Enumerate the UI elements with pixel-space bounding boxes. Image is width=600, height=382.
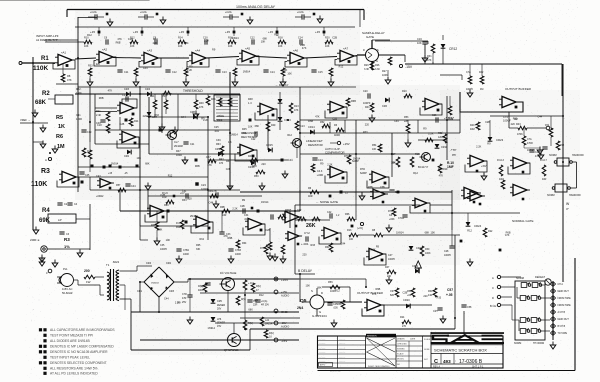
svg-text:CR?: CR?: [433, 310, 438, 313]
svg-text:1%: 1%: [64, 244, 70, 249]
svg-text:+0R22: +0R22: [96, 195, 104, 198]
svg-text:6AMP: 6AMP: [360, 172, 367, 175]
svg-text:APPD: APPD: [320, 364, 326, 367]
title block col2: [365, 336, 367, 368]
op-amp B3: [510, 157, 530, 173]
svg-text:C16: C16: [417, 37, 422, 41]
svg-text:+.001: +.001: [301, 242, 309, 246]
svg-text:MAIN OUT: MAIN OUT: [558, 290, 570, 293]
scattered value labels: [87, 33, 542, 329]
svg-text:BC117 P: BC117 P: [418, 165, 428, 169]
svg-text:R6D5: R6D5: [285, 209, 292, 212]
svg-text:R45: R45: [242, 128, 247, 131]
wire c8 out: [358, 234, 460, 236]
resistor row1v 0: [88, 68, 92, 80]
capacitor top Cc7: [250, 37, 255, 45]
note 7: [39, 361, 107, 365]
note 9: [43, 372, 98, 376]
title block col5 text: [424, 338, 431, 361]
wire q3 down: [171, 140, 173, 151]
svg-text:C45: C45: [85, 174, 90, 177]
resistor wr1: [218, 98, 232, 106]
transistor Q1 sample gate: [357, 40, 390, 70]
svg-text:2N4: 2N4: [297, 306, 303, 310]
ground row1v 5: [328, 79, 334, 87]
op-amp A4: [187, 49, 209, 68]
label R4 69K: [39, 208, 51, 224]
svg-text:100R: 100R: [76, 118, 82, 121]
wire ng right bus: [430, 212, 520, 214]
ground mesh a: [172, 127, 178, 135]
wire fet to opamp: [324, 287, 362, 302]
svg-text:CR9: CR9: [215, 148, 221, 151]
op-amp A3: [139, 49, 161, 68]
label mesh l0: [76, 88, 82, 121]
wire h154b: [149, 153, 240, 155]
wire c7 fb: [410, 203, 430, 213]
resistor net fr0: [470, 122, 480, 131]
diode CR23: [488, 120, 504, 142]
diode col d1: [278, 92, 283, 103]
svg-text:C18: C18: [97, 124, 102, 127]
wire bus y42a: [45, 41, 84, 43]
svg-text:R(U): R(U): [256, 285, 261, 288]
ground lj2: [52, 260, 58, 268]
svg-text:470K: 470K: [517, 133, 523, 136]
wire h160b: [208, 159, 288, 161]
label precision: [241, 131, 258, 139]
ground row1v 0: [87, 79, 93, 87]
svg-text:C41: C41: [76, 114, 81, 117]
svg-text:22R: 22R: [253, 304, 258, 307]
svg-text:+00R: +00R: [317, 174, 323, 177]
title block botleft box: [319, 363, 333, 367]
ground t40: [193, 111, 199, 119]
svg-text:47K: 47K: [372, 293, 377, 296]
capacitor top Cc9: [298, 37, 303, 45]
wire right stub y75: [440, 75, 462, 80]
plug AC: [57, 267, 74, 287]
capacitor f6: [81, 130, 92, 134]
wire b2 fb: [465, 161, 487, 172]
ground c5g: [272, 254, 278, 262]
capacitor mid row1 4: [311, 70, 323, 74]
label a17: [360, 168, 367, 175]
svg-text:A CH B: A CH B: [558, 311, 566, 314]
capacitor mesh g: [97, 120, 106, 127]
diode CR18: [409, 246, 424, 250]
svg-text:R12: R12: [335, 289, 340, 292]
svg-text:68K: 68K: [317, 286, 322, 289]
wire v120-133: [355, 120, 357, 141]
box c23: [195, 182, 208, 191]
svg-text:RESISTOR: RESISTOR: [308, 143, 323, 147]
svg-text:FROM TAPE: FROM TAPE: [558, 304, 572, 307]
terminal c tr: [527, 126, 553, 131]
resistor ps extra: [236, 296, 246, 305]
wire v360 top: [359, 10, 361, 28]
ground x3: [359, 193, 365, 201]
svg-text:R26: R26: [375, 64, 380, 67]
label mesh d: [214, 126, 247, 135]
op-amp B5: [510, 184, 530, 200]
svg-text:R48: R48: [248, 98, 253, 101]
svg-text:CR4: CR4: [145, 88, 151, 91]
svg-text:220: 220: [511, 123, 516, 126]
svg-text:R57: R57: [116, 184, 121, 187]
svg-text:+15: +15: [225, 30, 230, 34]
capacitor c14: [312, 158, 323, 162]
svg-text:2.2K: 2.2K: [232, 207, 237, 210]
svg-text:+C2A: +C2A: [297, 10, 304, 14]
svg-text:C20: C20: [363, 90, 368, 93]
svg-text:68K: 68K: [145, 162, 150, 165]
capacitor top C3: [223, 10, 243, 20]
svg-text:C12: C12: [172, 71, 177, 74]
wire h318 bm: [240, 317, 300, 319]
resistor k5: [372, 229, 383, 237]
svg-text:DEFEAT: DEFEAT: [535, 275, 545, 279]
label c9: [388, 254, 396, 261]
power +15 t1: [133, 27, 143, 36]
label mesh l1: [96, 110, 101, 125]
svg-text:C14: C14: [298, 37, 303, 40]
svg-text:40R: 40R: [542, 178, 547, 181]
label panel bottom: [514, 342, 544, 345]
wire h279 link: [366, 278, 563, 280]
wire h130 ext: [162, 129, 230, 131]
resistor mesh f: [248, 155, 258, 162]
svg-text:HANDOFF: HANDOFF: [569, 194, 582, 197]
svg-text:C7A: C7A: [527, 138, 532, 141]
wire v90b: [89, 87, 91, 142]
svg-text:CR2: CR2: [166, 262, 172, 265]
capacitor mid row1 2: [215, 70, 227, 74]
op-amp A10: [119, 131, 139, 144]
svg-text:100R: 100R: [183, 253, 189, 256]
capacitor c2c2: [240, 205, 253, 214]
ground tr2: [524, 145, 543, 154]
svg-text:10K: 10K: [287, 73, 292, 76]
svg-text:C11: C11: [124, 71, 129, 74]
wire v290 b: [289, 211, 291, 228]
diode CR2b: [124, 150, 131, 158]
svg-text:40M: 40M: [470, 128, 475, 131]
svg-text:R52: R52: [320, 121, 325, 124]
svg-text:200: 200: [84, 269, 90, 273]
capacitor cx: [389, 190, 400, 194]
wire v392: [391, 133, 393, 177]
svg-text:R6B: R6B: [375, 288, 380, 291]
svg-text:CHECKED: CHECKED: [397, 344, 407, 346]
wire v356: [355, 141, 357, 200]
svg-text:1.4: 1.4: [248, 102, 252, 105]
wire 26k bus: [295, 219, 330, 221]
svg-text:1N914: 1N914: [261, 201, 269, 204]
svg-text:R62: R62: [151, 224, 156, 227]
svg-text:+.01: +.01: [248, 282, 253, 285]
resistor wr3: [219, 146, 224, 165]
resistor r44 tr: [522, 128, 533, 145]
svg-text:220: 220: [153, 42, 158, 45]
svg-text:C7B: C7B: [212, 190, 217, 193]
ground g4: [154, 238, 160, 246]
svg-text:1R25R: 1R25R: [265, 323, 273, 326]
svg-text:C2B: C2B: [332, 118, 337, 121]
label win: [566, 202, 570, 211]
label R7 1pct: [64, 237, 70, 249]
svg-text:C44: C44: [143, 67, 148, 70]
wire bm top rail: [262, 279, 366, 287]
wire bus y192: [240, 191, 360, 193]
wire c8 fb: [319, 233, 341, 244]
svg-text:VREF →: VREF →: [20, 118, 31, 122]
resistor r47: [385, 266, 396, 278]
svg-text:CR12: CR12: [449, 47, 457, 51]
svg-text:A: A: [45, 158, 47, 162]
title block col1: [337, 336, 339, 368]
svg-text:1N914: 1N914: [243, 70, 251, 73]
panel input D: [492, 295, 512, 300]
svg-text:220: 220: [261, 163, 266, 166]
capacitor cl2: [125, 184, 136, 188]
svg-text:R22: R22: [488, 230, 493, 233]
resistor r24: [400, 316, 411, 328]
capacitor ps c1: [255, 300, 269, 307]
svg-text:GATE: GATE: [366, 35, 374, 39]
svg-text:MODEL: MODEL: [397, 359, 405, 361]
svg-text:SCALE: SCALE: [397, 353, 404, 356]
svg-text:R12: R12: [274, 33, 279, 36]
power +15 t3: [225, 27, 235, 36]
capacitor c tap: [212, 190, 219, 208]
svg-text:.001: .001: [214, 130, 219, 133]
switch norm low2: [547, 184, 582, 197]
svg-text:C31: C31: [182, 190, 187, 193]
svg-text:R33: R33: [154, 114, 159, 117]
svg-text:R12: R12: [339, 65, 344, 68]
svg-text:CR8: CR8: [190, 111, 195, 114]
svg-text:1W: 1W: [86, 280, 91, 284]
wire c2 fb: [191, 222, 213, 233]
svg-text:G·MPF104: G·MPF104: [312, 314, 327, 318]
label 24MF: [30, 238, 40, 242]
svg-text:R58: R58: [337, 303, 342, 306]
logo SAE: [431, 332, 505, 344]
capacitor top C2: [138, 10, 158, 20]
svg-text:CR24: CR24: [474, 224, 482, 228]
label linear fet: [306, 139, 323, 147]
resistor ngr: [483, 228, 493, 237]
svg-text:26K: 26K: [306, 223, 316, 229]
svg-text:+15: +15: [268, 30, 273, 34]
svg-text:100UF: 100UF: [503, 119, 511, 123]
wire v268: [267, 115, 269, 150]
svg-text:C44: C44: [537, 115, 542, 118]
svg-text:47R: 47R: [182, 297, 187, 300]
svg-text:100PF: 100PF: [388, 258, 396, 261]
resistor c5r: [280, 245, 286, 263]
terminal misc3: [499, 249, 502, 252]
svg-text:×A7: ×A7: [343, 47, 348, 51]
note 8: [43, 367, 97, 371]
resistor pair topright: [466, 64, 484, 91]
label f12: [404, 116, 409, 123]
wire v452: [451, 190, 453, 230]
label c1: [162, 192, 175, 199]
svg-text:R.U: R.U: [176, 222, 180, 225]
svg-text:R52: R52: [438, 132, 443, 135]
connector J3: [551, 296, 572, 301]
diode CR6: [382, 98, 389, 108]
svg-text:-15V: -15V: [405, 65, 413, 69]
svg-text:C19: C19: [162, 95, 167, 98]
wire rail mid3: [215, 322, 299, 324]
svg-text:C26: C26: [432, 114, 437, 117]
connector J7: [551, 324, 566, 329]
label b delay: [298, 269, 313, 273]
resistor ng3: [420, 246, 431, 256]
svg-text:R2: R2: [42, 91, 50, 97]
ground k6: [386, 225, 392, 233]
svg-text:C2B: C2B: [332, 36, 337, 39]
svg-text:—— —: —— —: [339, 343, 345, 345]
svg-text:4R 20V: 4R 20V: [261, 304, 269, 307]
label R6 1M: [56, 134, 65, 150]
note 1: [39, 328, 116, 332]
ground bm2: [440, 316, 446, 324]
terminal +15 mid: [330, 141, 350, 146]
svg-text:R33: R33: [153, 38, 158, 41]
svg-text:—— —: —— —: [339, 361, 345, 363]
svg-text:R50: R50: [254, 175, 259, 178]
svg-text:25V: 25V: [182, 301, 187, 304]
wire v95: [94, 94, 96, 144]
label R3 110K: [31, 168, 50, 188]
wire b3 bus196: [148, 195, 262, 197]
svg-text:R33: R33: [88, 64, 93, 67]
svg-text:4M: 4M: [480, 88, 483, 91]
wire b1 loop: [460, 92, 523, 112]
svg-text:×A5: ×A5: [245, 47, 250, 51]
svg-text:R46: R46: [248, 155, 253, 158]
svg-text:C28: C28: [444, 250, 449, 253]
svg-text:3.3K: 3.3K: [364, 68, 369, 71]
svg-text:R3: R3: [41, 168, 50, 175]
svg-text:470: 470: [219, 162, 224, 165]
op-amp A9: [117, 102, 137, 115]
resistor a13r: [346, 98, 356, 106]
svg-text:R18: R18: [415, 153, 420, 156]
switch S1: [521, 282, 531, 287]
svg-text:68K: 68K: [255, 125, 260, 128]
svg-text:2.2K: 2.2K: [187, 69, 192, 72]
svg-text:R6B: R6B: [116, 41, 121, 44]
op-amp A12: [257, 103, 277, 116]
wire h313 bm: [275, 313, 277, 323]
op-amp C6: [370, 189, 388, 203]
wire sw mesh: [512, 285, 550, 331]
wire a13 fb: [325, 107, 347, 118]
svg-text:C2B: C2B: [119, 123, 124, 126]
svg-text:R26: R26: [364, 64, 369, 67]
svg-text:DENOTES IC NO NCA105 AMPLIFIER: DENOTES IC NO NCA105 AMPLIFIER: [50, 350, 108, 354]
resistor r13: [289, 103, 299, 113]
svg-text:C42: C42: [327, 211, 332, 214]
svg-text:R41: R41: [365, 106, 370, 109]
resistor f3: [266, 122, 276, 131]
resistor rr18: [410, 153, 420, 167]
panel input A: [492, 275, 521, 280]
capacitor c3a: [57, 203, 67, 206]
node 0 terminal: [39, 255, 45, 263]
svg-text:×A3: ×A3: [147, 49, 152, 53]
capacitor c28: [444, 230, 455, 257]
svg-text:R61: R61: [325, 246, 330, 249]
svg-text:C27: C27: [206, 156, 211, 159]
box g12: [167, 210, 260, 224]
svg-text:C2B: C2B: [402, 292, 407, 295]
ground bm1: [331, 320, 337, 328]
ground f15: [405, 140, 411, 148]
label tp: [450, 148, 456, 157]
svg-text:R60: R60: [428, 290, 433, 293]
svg-text:DENOTES IC MP LASER COMPENSATE: DENOTES IC MP LASER COMPENSATED: [50, 345, 114, 349]
node A: [45, 152, 52, 162]
wire row y94 threshold bus: [75, 93, 240, 95]
svg-text:+15: +15: [133, 30, 138, 34]
resistor ps r2: [260, 317, 273, 326]
output term +15audio: [274, 290, 289, 298]
wire h142 left: [33, 141, 43, 143]
svg-text:+C2A: +C2A: [90, 10, 97, 14]
svg-text:R54: R54: [372, 144, 377, 147]
svg-text:10K: 10K: [372, 148, 377, 151]
resistor rd: [344, 155, 359, 164]
wire a8 out: [79, 176, 120, 178]
wire a17 fb: [367, 177, 389, 188]
terminal misc5: [432, 159, 435, 162]
wire bus h64 left: [357, 54, 362, 56]
resistor row1v 5: [329, 68, 333, 80]
svg-text:C44: C44: [184, 42, 189, 45]
ground panel: [550, 342, 556, 350]
svg-text:·6022: ·6022: [112, 260, 120, 264]
op-amp C5: [285, 232, 302, 246]
resistor ps r3: [264, 330, 274, 339]
capacitor fr lad: [538, 147, 548, 153]
resistor fr b: [501, 180, 505, 189]
resistor y184: [116, 184, 126, 192]
svg-text:R18: R18: [278, 37, 283, 40]
wire bdelay: [295, 273, 315, 275]
svg-text:24MF ⊕: 24MF ⊕: [30, 238, 40, 242]
svg-text:×A6: ×A6: [293, 49, 298, 53]
svg-text:1N914: 1N914: [230, 133, 238, 136]
resistor f11: [320, 121, 330, 128]
label cr13: [284, 118, 291, 122]
svg-text:220: 220: [365, 123, 370, 126]
resistor a16r2: [448, 96, 452, 115]
ground pr3: [259, 183, 265, 191]
diode D6: [145, 88, 151, 96]
panel input B: [490, 303, 512, 308]
diode CR21: [412, 265, 419, 273]
op-amp C10: [467, 191, 485, 205]
ground ng5: [467, 259, 473, 267]
svg-text:2N4B3: 2N4B3: [190, 215, 198, 218]
label size C: [434, 359, 438, 365]
